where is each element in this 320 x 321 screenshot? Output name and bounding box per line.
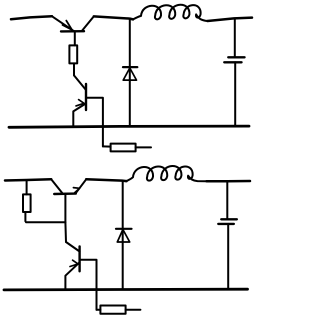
transistor Q2 emitter arrow — [76, 100, 84, 106]
diode D2 lead — [122, 181, 124, 290]
transistor Q2 collector lead — [86, 98, 103, 147]
capacitor C2 bottom plate — [218, 223, 234, 225]
transistor Q2 base lead — [74, 75, 86, 90]
diode D1 cathode bar — [123, 66, 137, 68]
resistor R1 body — [69, 45, 77, 63]
inductor L2 — [126, 166, 207, 181]
wire R3 to Q3 base — [26, 221, 65, 223]
wire Q3 base down — [64, 194, 67, 242]
transistor Q3 emitter arrow — [73, 188, 79, 193]
capacitor C2 top plate — [221, 218, 237, 220]
transistor Q1 base bar — [61, 30, 84, 33]
diode D2 triangle — [117, 230, 129, 243]
wire input rail left (top circuit) — [11, 16, 52, 19]
transistor Q4 collector lead — [80, 260, 97, 310]
resistor R4 body — [100, 306, 125, 314]
resistor R2 body — [111, 144, 136, 152]
transistor Q2 emitter lead — [73, 103, 86, 127]
capacitor C2 top lead — [226, 181, 228, 219]
resistor R2 left lead — [103, 145, 111, 147]
resistor R3 body — [23, 194, 31, 212]
wire input rail left (bottom circuit) — [5, 179, 51, 180]
wire bottom rail (bottom circuit) — [4, 288, 248, 291]
resistor R2 right stub — [136, 146, 151, 148]
capacitor C1 bottom plate — [224, 61, 241, 63]
diode D1 lead — [129, 19, 131, 127]
wire top rail Q3 to diode/inductor — [86, 179, 126, 181]
transistor Q4 emitter lead — [65, 262, 79, 290]
diode D2 cathode bar — [116, 228, 132, 230]
resistor R3 bottom lead — [24, 212, 26, 221]
resistor R1 top lead — [74, 31, 76, 45]
capacitor C1 bottom lead — [234, 62, 236, 126]
wire top rail L1 to cap — [208, 18, 253, 21]
transistor Q1 emitter arrow — [63, 21, 73, 30]
transistor Q3 collector lead — [51, 179, 62, 193]
capacitor C1 top plate — [228, 56, 244, 58]
transistor Q3 base bar — [54, 192, 76, 195]
resistor R3 top lead — [26, 180, 28, 194]
transistor Q2 base bar — [85, 84, 87, 110]
capacitor C1 top lead — [234, 18, 236, 57]
resistor R4 right stub — [126, 309, 141, 311]
capacitor C2 bottom lead — [227, 224, 229, 290]
resistor R1 bottom lead — [73, 63, 75, 75]
resistor R4 left lead — [97, 309, 101, 311]
wire top rail L2 to cap — [207, 180, 251, 183]
wire bottom rail (top circuit) — [9, 126, 249, 127]
inductor L1 — [133, 5, 208, 21]
transistor Q1 collector lead — [82, 16, 94, 30]
transistor Q4 base bar — [78, 246, 80, 271]
transistor Q4 base lead — [66, 242, 80, 252]
transistor Q4 emitter arrow — [70, 260, 78, 266]
wire top rail Q1 to diode/inductor — [94, 16, 133, 19]
transistor Q3 emitter lead — [76, 179, 86, 193]
diode D1 triangle — [123, 68, 136, 80]
transistor Q1 emitter lead — [52, 16, 74, 31]
